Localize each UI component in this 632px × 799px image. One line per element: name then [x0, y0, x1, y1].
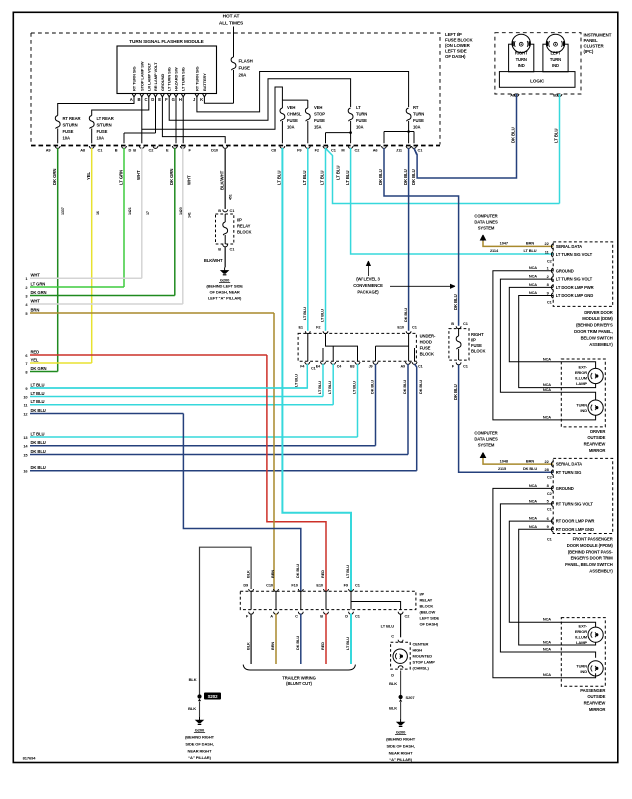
svg-text:DOOR MODULE (FPDM): DOOR MODULE (FPDM)	[567, 543, 614, 548]
wire DK BLU C1 jog	[411, 148, 417, 185]
fuse LT REAR S/TURN 10A	[89, 97, 149, 143]
svg-text:NEAR RIGHT: NEAR RIGHT	[188, 749, 213, 754]
wire RED 6 to relay E10	[267, 355, 326, 591]
svg-text:DK BLU: DK BLU	[418, 380, 423, 394]
svg-text:BLOCK: BLOCK	[237, 230, 251, 235]
svg-text:DK BLU: DK BLU	[31, 449, 46, 454]
svg-text:LT BLU: LT BLU	[320, 309, 325, 322]
svg-text:LT BLU: LT BLU	[294, 374, 299, 387]
svg-text:STOP: STOP	[314, 112, 325, 117]
svg-text:1048: 1048	[500, 458, 509, 463]
left I/P fuse block label	[445, 32, 473, 59]
svg-text:1421: 1421	[128, 207, 132, 215]
svg-text:H: H	[179, 97, 182, 102]
svg-text:RED: RED	[31, 349, 40, 354]
svg-text:DK BLU: DK BLU	[295, 636, 300, 650]
svg-text:LOGIC: LOGIC	[530, 78, 545, 83]
svg-text:B3: B3	[350, 365, 355, 369]
svg-text:S207: S207	[406, 695, 416, 700]
svg-text:TURN: TURN	[576, 403, 587, 408]
fuse RT REAR S/TURN 10A	[55, 97, 134, 143]
svg-text:TURN: TURN	[413, 112, 424, 117]
wire DK BLU J11 to underhood	[403, 148, 409, 331]
svg-text:B: B	[218, 247, 221, 252]
svg-text:RIGHT: RIGHT	[471, 332, 484, 337]
relay block feed-through wires	[243, 564, 353, 664]
ground G200 right	[386, 719, 416, 762]
trailer wiring bracket	[243, 665, 355, 687]
svg-text:LT BLU: LT BLU	[31, 382, 45, 387]
svg-text:NCA: NCA	[543, 672, 551, 677]
svg-text:NCA: NCA	[543, 382, 551, 387]
svg-text:E10: E10	[397, 325, 404, 330]
svg-text:WHT: WHT	[31, 273, 41, 278]
svg-text:LT DOOR LMP GND: LT DOOR LMP GND	[556, 293, 594, 298]
svg-text:LT GRN: LT GRN	[31, 281, 46, 286]
svg-text:LT BLU: LT BLU	[302, 171, 307, 185]
svg-text:MIRROR: MIRROR	[589, 707, 605, 712]
svg-text:“A” PILLAR): “A” PILLAR)	[188, 755, 211, 760]
wire DK BLU to FPDM 28	[453, 294, 553, 472]
svg-text:(W/ LEVEL 3: (W/ LEVEL 3	[356, 277, 380, 282]
connector row on fuse block	[55, 146, 416, 148]
svg-text:SIDE OF DASH,: SIDE OF DASH,	[185, 742, 213, 747]
wire LT BLU F2 to underhood	[320, 148, 326, 331]
wire pin J to RT TURN fuse	[197, 72, 409, 112]
driver door module box	[545, 241, 613, 306]
svg-text:DRIVER DOOR: DRIVER DOOR	[584, 310, 613, 315]
svg-text:BLOCK: BLOCK	[420, 604, 434, 609]
label 2114 LT BLU	[490, 248, 537, 253]
svg-text:DK GRN: DK GRN	[31, 366, 47, 371]
wire FPDM pin9 to ext lamp -	[519, 524, 596, 645]
IPC label	[584, 33, 612, 55]
wire DK GRN A9 down	[52, 148, 65, 372]
svg-text:17: 17	[146, 211, 150, 215]
svg-text:FUSE BLOCK: FUSE BLOCK	[445, 37, 473, 42]
svg-text:ILLUM: ILLUM	[575, 376, 587, 381]
svg-text:S/TURN: S/TURN	[63, 122, 78, 127]
svg-text:FUSE: FUSE	[420, 346, 431, 351]
svg-text:FUSE: FUSE	[287, 118, 298, 123]
svg-text:C1: C1	[418, 365, 423, 369]
svg-text:B: B	[218, 208, 221, 213]
wire DDM pin9 to ext lamp -	[519, 290, 596, 388]
svg-text:DATA LINES: DATA LINES	[474, 220, 498, 225]
svg-text:NCA: NCA	[543, 640, 551, 645]
numbered wire stubs 1-16	[23, 273, 416, 474]
turn signal flasher module U1	[117, 39, 217, 94]
svg-text:“A” PILLAR): “A” PILLAR)	[389, 757, 412, 762]
svg-text:(ON LOWER: (ON LOWER	[445, 43, 471, 48]
wire FPDM pin5 to turn ind +	[500, 498, 595, 657]
svg-text:UNDER-: UNDER-	[420, 334, 436, 339]
svg-text:WHT: WHT	[31, 298, 41, 303]
label 2115 DK BLU	[498, 466, 537, 471]
svg-text:ERIOR: ERIOR	[575, 370, 587, 375]
svg-text:NCA: NCA	[543, 617, 551, 622]
svg-text:(BLUNT CUT): (BLUNT CUT)	[286, 681, 312, 686]
instrument panel cluster dashed box	[495, 33, 581, 94]
turn indicator lamp passenger	[576, 661, 603, 676]
I/P relay block (bottom) box	[240, 591, 439, 626]
svg-text:RT TURN SIG VOLT: RT TURN SIG VOLT	[556, 502, 594, 507]
underhood bottom connectors	[300, 362, 422, 370]
svg-text:SYSTEM: SYSTEM	[478, 226, 495, 231]
svg-text:(BELOW: (BELOW	[420, 610, 436, 615]
svg-text:RED: RED	[320, 642, 325, 650]
svg-text:817694: 817694	[23, 756, 37, 761]
svg-text:G200: G200	[220, 277, 230, 282]
svg-text:PANEL: PANEL	[584, 38, 598, 43]
wire DK BLU C3 to stub 15	[402, 364, 408, 455]
wire LT BLU C8 long	[277, 148, 351, 591]
svg-text:RT: RT	[413, 105, 419, 110]
svg-text:GROUND: GROUND	[160, 74, 165, 91]
wire pin F to LT TURN fuse	[169, 79, 350, 121]
svg-text:LEFT “A” PILLAR): LEFT “A” PILLAR)	[208, 295, 242, 300]
svg-text:RED: RED	[320, 570, 325, 578]
svg-text:F10: F10	[291, 583, 297, 588]
passenger mirror label	[580, 688, 605, 712]
wire YEL A8 down	[86, 148, 100, 363]
svg-text:FUSE: FUSE	[471, 343, 482, 348]
front passenger door module box	[545, 458, 613, 541]
center high mounted stop lamp	[391, 642, 436, 671]
svg-text:DK BLU: DK BLU	[295, 564, 300, 578]
wire BRN 5 to relay C10	[273, 313, 275, 591]
wire BRN serial data DDM	[483, 241, 553, 247]
svg-text:NCA: NCA	[529, 282, 537, 287]
underhood top connectors	[298, 325, 417, 334]
svg-text:VEH: VEH	[314, 105, 322, 110]
svg-text:2114: 2114	[490, 248, 499, 253]
svg-text:10A: 10A	[63, 135, 70, 140]
svg-text:LT GRN: LT GRN	[118, 170, 123, 185]
svg-text:BRN: BRN	[270, 642, 275, 650]
module pin labels A-K	[130, 61, 207, 102]
svg-text:16: 16	[96, 211, 100, 215]
svg-text:VEH: VEH	[287, 105, 295, 110]
svg-text:HIGH: HIGH	[413, 648, 423, 653]
svg-text:E: E	[158, 97, 161, 102]
svg-text:BLK: BLK	[389, 706, 397, 711]
svg-text:BLK: BLK	[189, 677, 197, 682]
wire DDM pin2 to turn ind +	[500, 274, 595, 400]
svg-text:15A: 15A	[314, 125, 321, 130]
wire LT BLU M C2 to DDM 11	[345, 148, 553, 254]
svg-text:CONVENIENCE: CONVENIENCE	[353, 283, 383, 288]
svg-text:ERIOR: ERIOR	[575, 629, 587, 634]
svg-text:ASSEMBLY): ASSEMBLY)	[589, 342, 613, 347]
svg-text:BLOCK: BLOCK	[471, 348, 485, 353]
fuse LT TURN 10A	[326, 105, 368, 143]
svg-text:OF DASH, NEAR: OF DASH, NEAR	[209, 289, 239, 294]
svg-text:OUTSIDE: OUTSIDE	[587, 435, 605, 440]
svg-text:DK BLU: DK BLU	[31, 465, 46, 470]
wire pin C to LT GRN connector	[124, 97, 156, 143]
wire LT BLU C4 to stub 11	[327, 364, 333, 405]
fuse FLASH 20A	[231, 27, 253, 104]
svg-text:RR LAMP VOLT: RR LAMP VOLT	[153, 62, 158, 91]
svg-text:DK BLU: DK BLU	[523, 466, 537, 471]
svg-text:EXT-: EXT-	[579, 623, 588, 628]
splice S202	[197, 693, 221, 702]
svg-text:DK BLU: DK BLU	[411, 169, 416, 185]
wire LT GRN down	[118, 148, 132, 287]
DDM label	[574, 310, 613, 347]
svg-text:BLK/WHT: BLK/WHT	[219, 170, 224, 190]
svg-text:DK GRN: DK GRN	[31, 290, 47, 295]
svg-text:GROUND: GROUND	[556, 268, 574, 273]
svg-text:NCA: NCA	[543, 647, 551, 652]
svg-text:DK BLU: DK BLU	[378, 169, 383, 185]
wire pin G to row	[175, 97, 177, 143]
note W/ LEVEL 3 CONVENIENCE PACKAGE	[353, 261, 455, 295]
svg-text:NCA: NCA	[529, 274, 537, 279]
svg-text:BELOW SWITCH: BELOW SWITCH	[581, 335, 613, 340]
driver mirror label	[584, 429, 606, 453]
svg-text:YEL: YEL	[86, 171, 91, 180]
node HOT AT ALL TIMES	[219, 14, 244, 27]
svg-text:A: A	[270, 614, 273, 619]
svg-text:D: D	[129, 148, 132, 153]
svg-text:CLUSTER: CLUSTER	[584, 44, 605, 49]
svg-text:LT TURN SIG: LT TURN SIG	[181, 67, 186, 91]
wire BRN serial data FPDM	[483, 458, 553, 464]
wire CHMSL D to ground	[389, 671, 401, 696]
svg-text:A: A	[130, 97, 133, 102]
svg-text:ASSEMBLY): ASSEMBLY)	[589, 569, 613, 574]
svg-text:LT BLU: LT BLU	[352, 381, 357, 394]
svg-text:SERIAL DATA: SERIAL DATA	[556, 244, 582, 249]
svg-text:IND: IND	[552, 63, 559, 68]
svg-text:SIDE OF DASH,: SIDE OF DASH,	[386, 744, 414, 749]
ground G200 left	[185, 717, 215, 760]
svg-text:LT BLU: LT BLU	[554, 129, 559, 143]
svg-text:1337: 1337	[61, 207, 65, 215]
svg-text:(BEHIND FRONT PASS-: (BEHIND FRONT PASS-	[568, 549, 613, 554]
node COMPUTER DATA LINES SYSTEM 2	[474, 431, 498, 465]
svg-text:FUSE: FUSE	[356, 118, 367, 123]
svg-text:MIRROR: MIRROR	[589, 448, 605, 453]
svg-text:TURN SIGNAL FLASHER MODULE: TURN SIGNAL FLASHER MODULE	[129, 39, 203, 44]
wire DDM pin1 gnd to turn ind -	[493, 265, 596, 420]
svg-text:NCA: NCA	[529, 483, 537, 488]
wire DK BLU from IPC A8 to C1	[414, 94, 517, 178]
svg-text:LEFT: LEFT	[550, 51, 561, 56]
svg-text:PANEL, BELOW SWITCH: PANEL, BELOW SWITCH	[565, 562, 613, 567]
svg-text:OF DASH): OF DASH)	[420, 622, 439, 627]
svg-text:DK BLU: DK BLU	[31, 440, 46, 445]
svg-text:SERIAL DATA: SERIAL DATA	[556, 462, 582, 467]
svg-text:NCA: NCA	[529, 524, 537, 529]
wire FPDM pin8 gnd to turn ind -	[493, 483, 596, 678]
svg-text:LEFT SIDE: LEFT SIDE	[420, 616, 440, 621]
exterior illum lamp passenger	[575, 623, 603, 645]
svg-text:B: B	[115, 148, 118, 153]
wire S202 to G200	[188, 702, 199, 718]
wire DDM pin8 to ext lamp +	[509, 282, 595, 369]
svg-text:2115: 2115	[498, 466, 507, 471]
svg-text:MOUNTED: MOUNTED	[413, 654, 433, 659]
IPC logic box	[499, 72, 575, 88]
svg-text:B: B	[320, 614, 323, 619]
wire BLK/WHT to ground	[204, 247, 225, 267]
svg-text:C: C	[391, 634, 394, 639]
svg-text:(IPC): (IPC)	[584, 49, 594, 54]
svg-text:M: M	[341, 148, 344, 153]
svg-text:INSTRUMENT: INSTRUMENT	[584, 33, 612, 38]
svg-text:RT REAR: RT REAR	[63, 116, 81, 121]
svg-text:7: 7	[25, 361, 27, 366]
svg-text:NCA: NCA	[529, 516, 537, 521]
wire LT BLU F4 to stub 9	[30, 364, 307, 388]
svg-text:TURN: TURN	[576, 663, 587, 668]
svg-text:I/P: I/P	[420, 592, 425, 597]
wire LT BLU F9 to underhood	[302, 148, 308, 331]
passenger outside rearview mirror box	[561, 618, 605, 687]
right turn indicator bulb	[509, 34, 534, 72]
svg-text:COMPUTER: COMPUTER	[474, 431, 497, 436]
svg-text:DK BLU: DK BLU	[370, 380, 375, 394]
svg-text:WHT: WHT	[136, 170, 141, 180]
svg-text:B: B	[451, 321, 454, 326]
svg-text:10A: 10A	[287, 125, 294, 130]
svg-text:DK BLU: DK BLU	[403, 169, 408, 185]
wire BLK/WHT D10 down	[219, 148, 232, 209]
svg-text:LT TURN SIG VOLT: LT TURN SIG VOLT	[556, 252, 593, 257]
fuse RT TURN 10A	[384, 105, 424, 143]
svg-text:D10: D10	[211, 148, 218, 153]
svg-text:S/TURN: S/TURN	[97, 122, 112, 127]
svg-text:TURN: TURN	[356, 112, 367, 117]
turn indicator lamp driver	[576, 400, 603, 415]
svg-text:10: 10	[23, 394, 27, 399]
svg-text:S202: S202	[208, 694, 219, 699]
fuse VEH STOP 15A	[305, 100, 325, 143]
svg-text:K: K	[200, 97, 203, 102]
svg-text:LT BLU: LT BLU	[31, 391, 45, 396]
wire DK BLU A6	[378, 148, 458, 326]
svg-text:20A: 20A	[239, 73, 248, 78]
svg-text:FUSE: FUSE	[63, 129, 74, 134]
svg-text:E10: E10	[316, 583, 323, 588]
svg-text:MODULE (DDM): MODULE (DDM)	[582, 316, 613, 321]
wire FPDM pin6 to ext lamp +	[509, 516, 595, 627]
svg-text:HOOD: HOOD	[420, 340, 432, 345]
row connector ids	[46, 148, 423, 153]
svg-text:PACKAGE): PACKAGE)	[357, 290, 379, 295]
svg-text:D: D	[345, 614, 348, 619]
wire LT BLU from IPC B1	[554, 94, 560, 204]
svg-text:RT DOOR LMP PWR: RT DOOR LMP PWR	[556, 519, 595, 524]
wire DK BLU A9 to stub 16	[415, 364, 423, 471]
svg-text:J11: J11	[396, 148, 403, 153]
svg-text:NCA: NCA	[529, 290, 537, 295]
svg-text:RELAY: RELAY	[237, 224, 251, 229]
svg-text:DK BLU: DK BLU	[403, 308, 408, 322]
svg-text:DK BLU: DK BLU	[511, 127, 516, 143]
svg-text:I/P: I/P	[237, 218, 242, 223]
svg-text:B: B	[138, 97, 141, 102]
splice S207	[399, 695, 416, 702]
svg-text:SYSTEM: SYSTEM	[478, 443, 495, 448]
left I/P fuse block dashed box	[31, 27, 440, 146]
svg-text:DK BLU: DK BLU	[31, 408, 46, 413]
svg-text:PASSENGER: PASSENGER	[580, 688, 605, 693]
svg-text:HOT AT: HOT AT	[223, 14, 240, 20]
svg-text:WHT: WHT	[187, 175, 192, 185]
driver outside rearview mirror box	[561, 359, 605, 427]
svg-text:REARVIEW: REARVIEW	[584, 701, 606, 706]
svg-text:LT TURN SIG: LT TURN SIG	[167, 67, 172, 91]
svg-text:LT: LT	[356, 105, 361, 110]
svg-text:LAMP: LAMP	[576, 640, 587, 645]
svg-text:RIGHT: RIGHT	[515, 51, 528, 56]
svg-text:STOP LAMP SW: STOP LAMP SW	[139, 61, 144, 91]
svg-text:ALL TIMES: ALL TIMES	[219, 21, 244, 27]
svg-text:DK BLU: DK BLU	[453, 384, 458, 400]
svg-text:BRN: BRN	[526, 241, 534, 246]
svg-text:(CHMSL): (CHMSL)	[413, 666, 430, 671]
svg-text:ENGER'S DOOR TRIM: ENGER'S DOOR TRIM	[571, 556, 614, 561]
svg-text:LT BLU: LT BLU	[524, 248, 537, 253]
svg-text:DK BLU: DK BLU	[402, 380, 407, 394]
svg-text:C10: C10	[266, 583, 273, 588]
node COMPUTER DATA LINES SYSTEM 1	[474, 214, 498, 247]
svg-text:(BEHIND DRIVER'S: (BEHIND DRIVER'S	[576, 323, 613, 328]
svg-text:LT BLU: LT BLU	[345, 637, 350, 650]
svg-text:D: D	[391, 673, 394, 678]
svg-text:RT DOOR LMP GND: RT DOOR LMP GND	[556, 527, 594, 532]
svg-text:CENTER: CENTER	[413, 642, 429, 647]
svg-text:451: 451	[229, 194, 233, 200]
svg-text:LAMP: LAMP	[576, 381, 587, 386]
svg-text:OF DASH): OF DASH)	[445, 54, 466, 59]
svg-text:GROUND: GROUND	[556, 486, 574, 491]
svg-text:BLOCK: BLOCK	[420, 352, 434, 357]
svg-text:CHMSL: CHMSL	[287, 112, 302, 117]
wire pin H to row	[182, 97, 184, 143]
svg-text:D: D	[151, 97, 154, 102]
svg-text:EXT-: EXT-	[579, 365, 588, 370]
right I/P fuse block	[449, 321, 486, 368]
svg-text:NCA: NCA	[529, 265, 537, 270]
svg-text:LT REAR: LT REAR	[97, 116, 114, 121]
svg-text:NCA: NCA	[529, 498, 537, 503]
svg-text:LT BLU: LT BLU	[31, 431, 45, 436]
exterior illum lamp driver	[575, 365, 603, 387]
svg-text:LT BLU: LT BLU	[381, 624, 395, 629]
wire C2 to CHMSL	[381, 614, 403, 642]
svg-text:FUSE: FUSE	[413, 118, 424, 123]
wire pin E ground to D10	[162, 97, 225, 143]
IPC pins A8 B1	[510, 93, 562, 98]
svg-text:LT BLU: LT BLU	[31, 399, 45, 404]
wire DK BLU J9 to stub 14	[370, 364, 376, 446]
svg-text:BATTERY: BATTERY	[202, 73, 207, 91]
svg-text:BRN: BRN	[270, 570, 275, 578]
wire DK BLU 12 to relay F10	[183, 414, 300, 592]
svg-text:FUSE: FUSE	[239, 66, 250, 71]
relay internal to C2	[351, 602, 410, 619]
svg-text:RELAY: RELAY	[420, 598, 433, 603]
svg-text:BLK: BLK	[389, 681, 397, 686]
svg-text:DK BLU: DK BLU	[453, 294, 458, 310]
svg-text:FUSE: FUSE	[97, 129, 108, 134]
diagram id 817694	[23, 756, 37, 761]
